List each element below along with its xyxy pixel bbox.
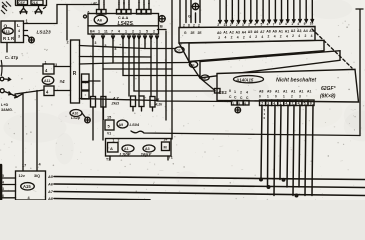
svg-text:4: 4 [285, 102, 287, 106]
svg-text:L+D: L+D [1, 103, 9, 107]
svg-text:A6: A6 [97, 17, 103, 22]
svg-text:4: 4 [285, 22, 287, 26]
svg-text:R: R [73, 71, 77, 77]
svg-text:A7: A7 [47, 190, 54, 194]
svg-text:2: 2 [280, 34, 282, 38]
svg-text:4: 4 [18, 29, 20, 33]
svg-text:M: M [164, 146, 167, 150]
svg-text:A1: A1 [283, 90, 287, 94]
svg-text:0: 0 [275, 95, 277, 99]
svg-text:8: 8 [115, 47, 117, 51]
svg-text:LS04: LS04 [130, 122, 140, 127]
svg-text:A0: A0 [217, 31, 222, 35]
svg-text:2: 2 [292, 102, 294, 106]
svg-text:2: 2 [248, 23, 250, 27]
svg-text:Nicht beschaltet: Nicht beschaltet [276, 78, 316, 84]
svg-text:4: 4 [148, 2, 150, 6]
svg-text:A1: A1 [285, 29, 290, 33]
svg-text:4: 4 [286, 34, 288, 38]
svg-text:3: 3 [18, 35, 20, 39]
svg-text:17: 17 [22, 164, 26, 168]
svg-text:16pY: 16pY [141, 152, 153, 157]
svg-text:2: 2 [236, 23, 238, 27]
svg-text:A1: A1 [275, 90, 279, 94]
svg-text:1: 1 [113, 139, 115, 143]
svg-text:A5: A5 [309, 29, 314, 33]
svg-text:A6: A6 [47, 183, 54, 187]
svg-text:Q: Q [4, 24, 8, 29]
svg-text:4: 4 [254, 23, 256, 27]
svg-text:2: 2 [217, 23, 219, 27]
svg-text:1: 1 [139, 30, 141, 34]
svg-text:A13: A13 [3, 30, 10, 34]
svg-text:A1: A1 [279, 29, 284, 33]
svg-text:A3: A3 [145, 147, 150, 151]
svg-text:14: 14 [164, 138, 168, 142]
svg-text:3: 3 [242, 23, 244, 27]
svg-text:A8: A8 [266, 30, 271, 34]
svg-text:1: 1 [291, 22, 293, 26]
svg-text:2: 2 [67, 41, 69, 45]
svg-text:CE: CE [176, 48, 180, 52]
svg-text:8: 8 [279, 22, 281, 26]
svg-text:12v: 12v [19, 174, 26, 178]
svg-text:C₁ 47p: C₁ 47p [5, 55, 19, 60]
svg-text:CE: CE [202, 76, 206, 80]
svg-text:5: 5 [105, 44, 107, 48]
svg-text:4: 4 [237, 35, 239, 39]
svg-text:4: 4 [274, 35, 276, 39]
svg-text:1: 1 [283, 95, 285, 99]
svg-text:A4: A4 [242, 30, 247, 34]
svg-text:2: 2 [291, 95, 293, 99]
svg-text:21: 21 [224, 23, 228, 27]
svg-text:B4: B4 [90, 30, 95, 34]
svg-text:V1: V1 [107, 132, 111, 136]
svg-text:2: 2 [268, 35, 270, 39]
svg-text:A6: A6 [254, 30, 259, 34]
svg-text:2: 2 [243, 35, 245, 39]
svg-text:2: 2 [218, 36, 220, 40]
svg-text:A1: A1 [299, 90, 303, 94]
svg-text:A2: A2 [291, 29, 296, 33]
svg-text:2: 2 [255, 35, 257, 39]
svg-text:5: 5 [261, 23, 263, 27]
svg-text:A2: A2 [229, 31, 234, 35]
svg-text:3&MG: 3&MG [1, 108, 12, 112]
svg-text:4: 4 [298, 34, 300, 38]
svg-text:4: 4 [273, 102, 275, 106]
svg-text:A5: A5 [47, 175, 54, 179]
svg-text:7: 7 [111, 30, 113, 34]
svg-text:7: 7 [273, 22, 275, 26]
svg-text:2: 2 [305, 34, 307, 38]
svg-text:1: 1 [98, 30, 100, 34]
svg-text:2L6: 2L6 [32, 1, 38, 5]
svg-text:A: A [110, 146, 113, 151]
svg-text:A1: A1 [291, 90, 295, 94]
svg-text:LS0F: LS0F [120, 152, 131, 157]
svg-text:15: 15 [107, 116, 111, 120]
svg-text:A15: A15 [23, 184, 31, 189]
svg-text:4,2k: 4,2k [155, 103, 164, 107]
svg-text:R 1 R: R 1 R [3, 36, 15, 41]
svg-text:L: L [17, 23, 20, 28]
svg-text:A1: A1 [307, 90, 311, 94]
svg-text:9: 9 [304, 22, 306, 26]
svg-text:T1: T1 [169, 156, 173, 160]
svg-text:LS123: LS123 [37, 30, 51, 36]
svg-text:4: 4 [267, 22, 269, 26]
svg-text:2: 2 [132, 30, 134, 34]
svg-text:3: 3 [2, 187, 4, 191]
svg-text:CE: CE [190, 63, 194, 67]
svg-text:2: 2 [292, 34, 294, 38]
svg-text:A4: A4 [303, 29, 308, 33]
svg-text:3: 3 [95, 41, 97, 45]
svg-text:A1: A1 [223, 31, 228, 35]
svg-text:4: 4 [311, 34, 313, 38]
svg-text:1: 1 [45, 61, 47, 65]
svg-text:A1: A1 [124, 147, 129, 151]
svg-text:G: G [188, 15, 191, 19]
svg-text:6: 6 [2, 194, 4, 198]
svg-text:C Δ Δ: C Δ Δ [118, 16, 128, 20]
svg-text:4: 4 [297, 22, 299, 26]
svg-text:4: 4 [225, 36, 227, 40]
svg-text:8: 8 [123, 2, 125, 6]
svg-text:3: 3 [299, 95, 301, 99]
svg-text:1: 1 [143, 2, 145, 6]
svg-text:62GF°: 62GF° [321, 86, 337, 92]
svg-text:A9: A9 [119, 123, 124, 127]
svg-text:1: 1 [125, 30, 127, 34]
svg-text:3iQ: 3iQ [34, 174, 40, 178]
svg-text:11: 11 [104, 30, 108, 34]
svg-text:A5: A5 [248, 30, 253, 34]
svg-text:T3: T3 [106, 158, 110, 162]
svg-text:2: 2 [118, 139, 120, 143]
svg-text:1: 1 [267, 95, 269, 99]
svg-text:1: 1 [279, 102, 281, 106]
svg-text:A8: A8 [47, 197, 54, 200]
svg-text:A11: A11 [44, 79, 50, 83]
svg-text:4: 4 [261, 35, 263, 39]
svg-text:1: 1 [128, 2, 130, 6]
svg-text:4: 4 [2, 181, 4, 185]
svg-text:7: 7 [261, 102, 263, 106]
svg-text:3: 3 [267, 102, 269, 106]
svg-text:2kΩ: 2kΩ [111, 101, 120, 106]
svg-text:3: 3 [55, 63, 57, 67]
svg-text:5: 5 [2, 174, 4, 178]
svg-text:A7: A7 [260, 30, 265, 34]
svg-text:10: 10 [310, 22, 314, 26]
svg-text:LS42S: LS42S [118, 21, 134, 27]
svg-text:#4: #4 [60, 79, 66, 84]
svg-text:2: 2 [230, 23, 232, 27]
svg-text:2: 2 [231, 36, 233, 40]
svg-text:4: 4 [249, 35, 251, 39]
